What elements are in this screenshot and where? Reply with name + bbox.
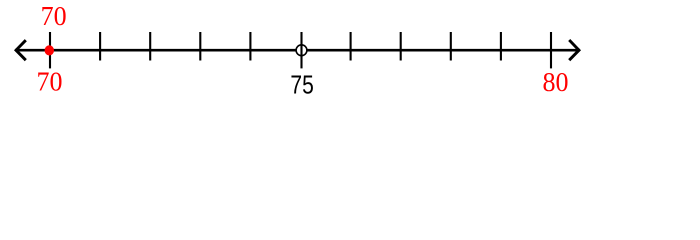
svg-text:70: 70 [37,65,63,96]
tick 77 [400,32,402,61]
tick 73 [199,32,201,61]
open circle at 75 (white fill) [296,45,307,56]
right arrowhead [569,40,579,60]
tick 72 [149,32,151,61]
svg-text:80: 80 [543,66,569,97]
number line shaft [15,49,580,52]
tick 76 [350,32,352,61]
svg-text:75: 75 [290,69,313,99]
tick 78 [450,32,452,61]
tick 80 (labeled, long) [550,32,552,68]
red plotted point at 70 [45,45,54,55]
tick 79 [500,32,502,61]
tick 74 [249,32,251,61]
tick 70 (labeled, long) [49,32,51,68]
svg-text:70: 70 [41,0,67,31]
tick 75 (labeled, long, drawn over circle) [300,32,302,68]
tick 71 [99,32,101,61]
left arrowhead [16,40,26,60]
